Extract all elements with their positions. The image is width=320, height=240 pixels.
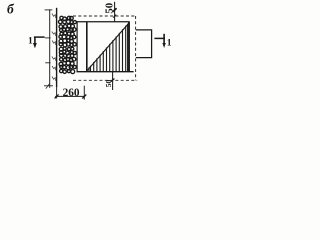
wire wall left face line <box>49 9 51 88</box>
wire left section mark stem <box>34 37 36 45</box>
component beam hatch <box>89 24 128 71</box>
wire nest dashed bottom <box>73 79 137 81</box>
wire wall bottom oblique tick <box>46 83 50 88</box>
wire wall tick top <box>45 9 53 11</box>
wire beam end face <box>86 22 88 72</box>
node left section arrowhead <box>33 43 37 48</box>
wire wall squiggle 3 <box>52 41 56 46</box>
wire bottom dimension line <box>112 72 114 90</box>
wire 260 dimension line <box>55 95 85 97</box>
wire wall tick bottom <box>44 85 53 87</box>
node right section arrowhead <box>162 43 165 48</box>
wire top dimension line <box>114 2 116 22</box>
wire wall tick mid1 <box>45 37 51 39</box>
svg-text:1: 1 <box>28 36 33 46</box>
wire wall squiggle 1 <box>52 14 56 19</box>
wire box left <box>76 22 78 72</box>
wire nest dashed right <box>135 16 137 80</box>
wire wall squiggle 6 <box>52 77 56 81</box>
wire wall squiggle 2 <box>52 32 56 36</box>
wire 260 left tick <box>55 94 59 98</box>
wire right section mark bar <box>154 37 165 39</box>
wire 260 right tick <box>82 95 86 99</box>
component anchor plate <box>136 30 152 58</box>
wire left section mark bar <box>34 36 45 38</box>
wire wall squiggle 4 <box>52 57 56 61</box>
wire 260 left extension <box>56 87 58 98</box>
wire wall tick mid2 <box>45 62 50 64</box>
wire top dimension thick tick <box>113 8 117 12</box>
wire right section mark stem <box>163 34 165 44</box>
wire wall squiggle 5 <box>52 66 56 70</box>
svg-text:50: 50 <box>104 80 113 88</box>
wire box bottom <box>77 71 134 73</box>
wire bottom dimension tick <box>111 79 115 82</box>
wire wall right face line <box>56 8 58 87</box>
wire beam right edge <box>128 22 130 72</box>
wire beam oblique cut <box>87 23 129 70</box>
component caulking circles <box>58 16 76 73</box>
svg-text:260: 260 <box>63 87 80 99</box>
wire 260 right extension <box>83 86 85 100</box>
wire box top <box>77 21 130 23</box>
wire top dimension tick2 <box>113 15 116 18</box>
svg-text:50: 50 <box>103 3 115 14</box>
svg-text:1: 1 <box>167 39 172 49</box>
wire nest dashed top <box>73 15 136 17</box>
